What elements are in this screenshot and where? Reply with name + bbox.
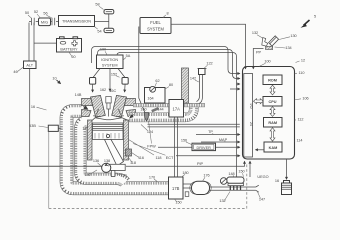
svg-text:142: 142 <box>190 76 196 80</box>
svg-text:140: 140 <box>84 173 90 177</box>
svg-text:17B: 17B <box>172 186 180 191</box>
svg-text:BATTERY: BATTERY <box>60 47 78 51</box>
svg-text:16: 16 <box>31 105 35 109</box>
svg-text:16C: 16C <box>109 89 116 93</box>
svg-text:176: 176 <box>203 174 209 178</box>
svg-text:112: 112 <box>297 117 303 121</box>
svg-text:170: 170 <box>149 175 155 179</box>
svg-text:RAM: RAM <box>268 121 277 125</box>
svg-text:53B: 53B <box>29 124 36 128</box>
svg-text:5A: 5A <box>126 54 131 58</box>
svg-text:132: 132 <box>252 31 258 35</box>
svg-text:MAP: MAP <box>219 138 228 142</box>
svg-text:52: 52 <box>34 10 38 14</box>
svg-text:150: 150 <box>238 170 244 174</box>
svg-text:118: 118 <box>130 161 136 165</box>
svg-text:120: 120 <box>120 173 126 177</box>
svg-text:5: 5 <box>314 15 316 19</box>
svg-text:56: 56 <box>43 12 47 16</box>
svg-text:CPU: CPU <box>268 100 276 104</box>
svg-text:80: 80 <box>169 83 173 87</box>
svg-text:ROM: ROM <box>268 79 277 83</box>
svg-text:50: 50 <box>25 11 29 15</box>
svg-text:14B: 14B <box>75 93 82 97</box>
svg-text:FPW: FPW <box>147 145 156 149</box>
svg-text:PIP: PIP <box>197 162 204 166</box>
svg-text:8: 8 <box>166 11 168 15</box>
svg-text:106: 106 <box>302 96 308 100</box>
svg-text:100: 100 <box>264 60 270 64</box>
svg-text:136: 136 <box>93 159 99 163</box>
svg-text:148: 148 <box>228 172 234 176</box>
svg-text:KAM: KAM <box>269 146 278 150</box>
svg-text:16: 16 <box>275 179 279 183</box>
svg-text:114: 114 <box>296 139 302 143</box>
svg-text:54: 54 <box>97 29 101 33</box>
svg-text:17A: 17A <box>173 106 181 111</box>
svg-text:IGNITION: IGNITION <box>101 58 118 62</box>
svg-text:TRANSMISSION: TRANSMISSION <box>62 20 91 24</box>
svg-text:M/G: M/G <box>41 21 48 25</box>
svg-text:ECT: ECT <box>166 156 174 160</box>
svg-text:164: 164 <box>147 96 153 100</box>
svg-text:116: 116 <box>138 156 144 160</box>
svg-text:60: 60 <box>71 55 75 59</box>
svg-text:130: 130 <box>290 34 296 38</box>
svg-text:14: 14 <box>82 127 86 131</box>
svg-text:144: 144 <box>157 108 163 112</box>
svg-text:PP: PP <box>256 51 262 55</box>
svg-text:ALT: ALT <box>26 63 33 67</box>
svg-text:134: 134 <box>285 46 291 50</box>
svg-text:118: 118 <box>155 156 161 160</box>
svg-text:58: 58 <box>95 2 99 6</box>
svg-text:147: 147 <box>259 197 265 201</box>
svg-text:10: 10 <box>52 76 56 80</box>
svg-text:FUEL: FUEL <box>150 20 161 25</box>
svg-text:24: 24 <box>249 122 253 126</box>
svg-text:160: 160 <box>140 108 146 112</box>
svg-text:180: 180 <box>182 171 188 175</box>
svg-text:162: 162 <box>100 88 106 92</box>
svg-text:UEGO: UEGO <box>257 175 268 179</box>
svg-text:110: 110 <box>298 71 304 75</box>
svg-text:SYSTEM: SYSTEM <box>102 64 118 68</box>
svg-text:138: 138 <box>104 159 110 163</box>
svg-text:SYSTEM: SYSTEM <box>147 26 164 31</box>
svg-text:62: 62 <box>155 79 159 83</box>
svg-text:12: 12 <box>301 59 305 63</box>
svg-text:122: 122 <box>206 62 212 66</box>
svg-text:I/O: I/O <box>249 103 253 108</box>
svg-text:46: 46 <box>13 70 17 74</box>
svg-text:DRIVER: DRIVER <box>197 146 212 150</box>
